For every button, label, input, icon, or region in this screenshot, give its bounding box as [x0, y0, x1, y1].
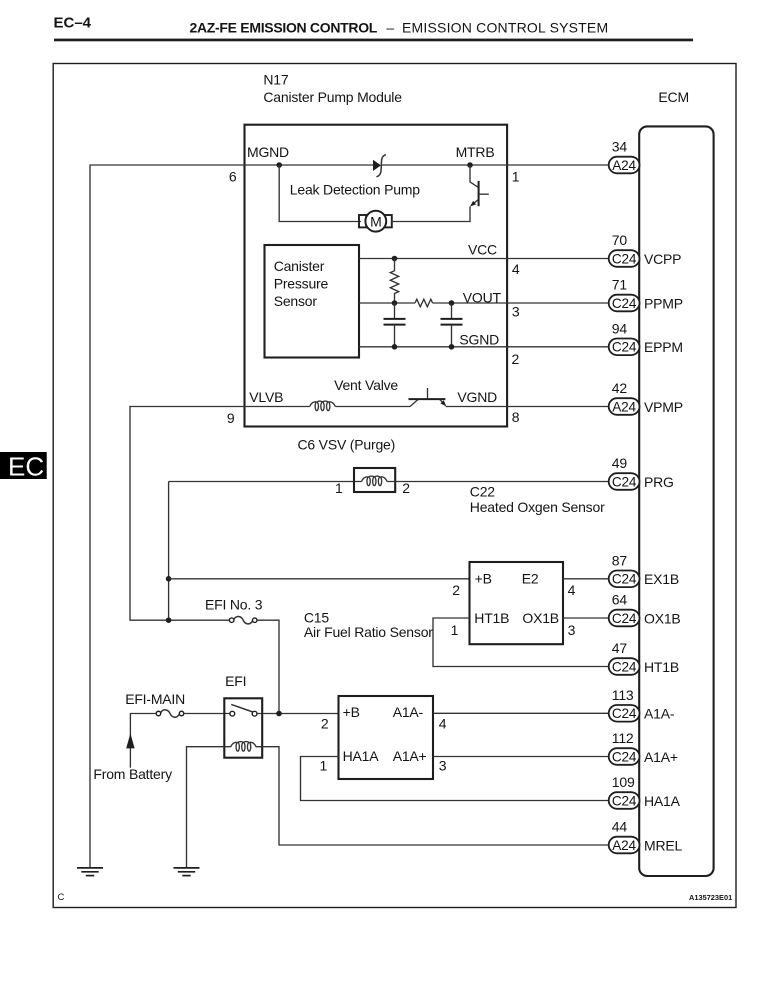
wire EFI-MAIN fuse to relay — [184, 713, 230, 715]
node MGND junction — [276, 162, 282, 168]
svg-text:OX1B: OX1B — [644, 610, 681, 626]
svg-text:A1A-: A1A- — [393, 704, 424, 720]
svg-text:Sensor: Sensor — [274, 293, 318, 309]
svg-text:EFI No. 3: EFI No. 3 — [205, 597, 263, 613]
connector A24 pin 34 — [609, 139, 640, 174]
svg-text:Pressure: Pressure — [274, 276, 329, 292]
svg-text:A24: A24 — [612, 838, 636, 853]
connector C24 pin 109 HA1A — [609, 774, 681, 809]
wire MGND pin 6 to ground — [90, 165, 245, 868]
wire check valve to MTRB pin 1 and connector A24 — [381, 164, 609, 166]
svg-text:PPMP: PPMP — [644, 295, 683, 311]
svg-text:3: 3 — [512, 304, 520, 320]
wire A1A+ to connector — [433, 756, 609, 758]
node VOUT junction right — [449, 300, 455, 306]
svg-text:EC–4: EC–4 — [54, 15, 92, 32]
svg-text:109: 109 — [612, 774, 635, 790]
wire relay coil to ground — [187, 747, 225, 868]
svg-text:3: 3 — [568, 622, 576, 638]
svg-text:A1A-: A1A- — [644, 706, 675, 722]
svg-text:8: 8 — [512, 409, 520, 425]
svg-text:1: 1 — [320, 758, 328, 774]
svg-text:C24: C24 — [612, 659, 637, 674]
svg-text:94: 94 — [612, 321, 628, 337]
svg-text:Air Fuel Ratio Sensor: Air Fuel Ratio Sensor — [304, 624, 433, 640]
svg-text:Leak Detection Pump: Leak Detection Pump — [290, 182, 420, 198]
node VOUT junction left — [392, 300, 398, 306]
wire relay coil to MREL connector — [262, 747, 609, 845]
svg-text:–: – — [386, 19, 394, 35]
svg-text:OX1B: OX1B — [522, 610, 559, 626]
wire relay switch output to A1A sensor — [257, 713, 339, 715]
wire MGND to check valve — [245, 164, 374, 166]
node SGND junction left — [392, 344, 398, 350]
resistor R2 series output — [415, 299, 433, 307]
connector C24 pin 49 PRG — [609, 455, 674, 490]
node MTRB junction — [467, 162, 473, 168]
svg-text:VCC: VCC — [468, 242, 497, 258]
svg-text:MTRB: MTRB — [456, 144, 495, 160]
svg-text:2: 2 — [402, 480, 410, 496]
connector C24 pin 71 PPMP — [609, 277, 683, 312]
svg-text:9: 9 — [227, 410, 235, 426]
svg-text:C15: C15 — [304, 609, 329, 625]
motor M leak detection pump — [359, 211, 392, 232]
wire A1A- to connector — [433, 712, 609, 714]
node SGND junction right — [449, 344, 455, 350]
wire battery to EFI-MAIN fuse — [130, 714, 156, 768]
connector C24 pin 94 EPPM — [609, 321, 683, 356]
label C15 Air Fuel Ratio Sensor — [304, 609, 433, 640]
wire HA1A to connector — [301, 757, 609, 801]
svg-text:Canister Pump Module: Canister Pump Module — [263, 89, 402, 105]
vent valve switch (driver) — [409, 388, 447, 407]
svg-text:EX1B: EX1B — [644, 571, 679, 587]
transistor Q1 leak detection pump driver — [470, 165, 489, 207]
svg-text:VLVB: VLVB — [249, 389, 283, 405]
svg-text:HA1A: HA1A — [644, 793, 681, 809]
wire E2 to connector EX1B — [563, 578, 609, 580]
vent valve coil — [245, 406, 310, 408]
svg-text:Heated Oxgen Sensor: Heated Oxgen Sensor — [470, 499, 605, 515]
svg-text:C24: C24 — [612, 793, 637, 808]
svg-text:N17: N17 — [263, 71, 288, 87]
svg-text:44: 44 — [612, 819, 628, 835]
svg-text:VGND: VGND — [457, 389, 497, 405]
connector C24 pin 70 VCPP — [609, 232, 682, 267]
capacitor C1 — [384, 303, 406, 347]
svg-text:MGND: MGND — [247, 144, 289, 160]
svg-text:HT1B: HT1B — [644, 659, 679, 675]
wire OX1B to connector — [563, 617, 609, 619]
wire HT1B to connector — [433, 618, 609, 667]
svg-text:C24: C24 — [612, 296, 637, 311]
svg-text:3: 3 — [439, 758, 447, 774]
relay EFI — [224, 673, 262, 758]
svg-text:2: 2 — [452, 582, 460, 598]
svg-text:C24: C24 — [612, 340, 637, 355]
svg-text:C6 VSV (Purge): C6 VSV (Purge) — [298, 436, 396, 452]
A1A heated oxygen sensor box — [339, 696, 434, 779]
wire PRG vertical to EFI No.3 line — [168, 482, 170, 621]
svg-text:C24: C24 — [612, 749, 637, 764]
wire motor to transistor emitter — [391, 206, 470, 221]
svg-text:2AZ-FE EMISSION CONTROL: 2AZ-FE EMISSION CONTROL — [190, 19, 378, 35]
connector C24 pin 64 OX1B — [609, 592, 681, 627]
svg-text:Canister: Canister — [274, 258, 325, 274]
svg-text:1: 1 — [451, 622, 459, 638]
svg-text:A24: A24 — [612, 158, 636, 173]
wire coil to vent valve switch — [335, 406, 410, 408]
fuse EFI-MAIN — [125, 691, 185, 717]
node EFI No.3 junction — [166, 617, 172, 623]
svg-text:C24: C24 — [612, 474, 637, 489]
capacitor C2 — [441, 303, 463, 347]
svg-text:C22: C22 — [470, 484, 495, 500]
wire VLVB pin 9 to EFI No.3 line — [130, 407, 245, 621]
svg-text:64: 64 — [612, 592, 628, 608]
svg-text:E2: E2 — [522, 571, 539, 587]
svg-text:From Battery: From Battery — [93, 766, 172, 782]
svg-text:VOUT: VOUT — [463, 289, 502, 305]
svg-text:EC: EC — [8, 452, 44, 482]
svg-text:HA1A: HA1A — [343, 748, 380, 764]
svg-text:M: M — [370, 214, 381, 230]
wire VCC sensor to connector — [359, 258, 609, 260]
svg-text:+B: +B — [343, 704, 360, 720]
svg-text:VPMP: VPMP — [644, 399, 683, 415]
svg-text:1: 1 — [512, 168, 520, 184]
svg-text:34: 34 — [612, 139, 628, 155]
connector C24 pin 87 EX1B — [609, 553, 679, 588]
ground G1 — [77, 868, 103, 876]
svg-text:C24: C24 — [612, 572, 637, 587]
svg-text:71: 71 — [612, 277, 628, 293]
node VCC junction — [392, 256, 398, 262]
svg-text:70: 70 — [612, 232, 628, 248]
svg-text:112: 112 — [612, 730, 634, 746]
svg-text:ECM: ECM — [658, 89, 689, 105]
node +B tap junction — [166, 576, 172, 582]
ECM box — [639, 89, 713, 876]
wire SGND sensor to connector — [359, 346, 609, 348]
svg-text:2: 2 — [321, 716, 329, 732]
svg-text:VCPP: VCPP — [644, 251, 681, 267]
svg-text:4: 4 — [512, 261, 520, 277]
svg-text:EFI-MAIN: EFI-MAIN — [125, 691, 185, 707]
connector C24 pin 112 A1A+ — [609, 730, 678, 765]
svg-text:42: 42 — [612, 380, 628, 396]
svg-text:4: 4 — [439, 716, 447, 732]
svg-text:C24: C24 — [612, 706, 637, 721]
label C22 Heated Oxgen Sensor — [470, 484, 605, 515]
wire fuse to relay output node — [257, 620, 279, 713]
connector A24 pin 42 VPMP — [609, 380, 683, 415]
svg-text:6: 6 — [229, 169, 237, 185]
VSV C6 purge valve box — [354, 468, 395, 492]
fuse EFI No. 3 — [205, 597, 263, 624]
wire PRG left segment — [169, 481, 362, 483]
node relay output junction — [276, 711, 282, 717]
svg-text:EPPM: EPPM — [644, 339, 683, 355]
svg-text:C24: C24 — [612, 251, 637, 266]
svg-text:C: C — [58, 892, 65, 903]
wire VGND to connector A24 — [446, 406, 609, 408]
svg-text:2: 2 — [512, 351, 520, 367]
svg-text:A1A+: A1A+ — [393, 748, 427, 764]
svg-text:A24: A24 — [612, 399, 636, 414]
svg-text:EMISSION CONTROL SYSTEM: EMISSION CONTROL SYSTEM — [402, 19, 608, 35]
svg-text:EFI: EFI — [225, 673, 246, 689]
svg-text:A135723E01: A135723E01 — [689, 893, 732, 902]
svg-text:MREL: MREL — [644, 837, 683, 853]
connector C24 pin 113 A1A- — [609, 687, 675, 722]
svg-text:4: 4 — [568, 582, 576, 598]
svg-text:87: 87 — [612, 553, 628, 569]
svg-text:A1A+: A1A+ — [644, 749, 678, 765]
VSV coil — [361, 476, 387, 486]
svg-text:PRG: PRG — [644, 474, 674, 490]
resistor R1 pull-up — [390, 259, 398, 304]
connector A24 pin 44 MREL — [609, 819, 683, 854]
battery feed arrow — [126, 733, 134, 748]
svg-text:Vent Valve: Vent Valve — [334, 377, 398, 393]
wire VOUT sensor to resistor R2 — [359, 302, 415, 304]
module N17 Canister Pump Module box — [245, 71, 508, 426]
svg-text:47: 47 — [612, 640, 628, 656]
svg-text:1: 1 — [335, 480, 343, 496]
svg-text:49: 49 — [612, 455, 628, 471]
wire +B supply to C15 sensor — [169, 578, 470, 580]
C15 air fuel ratio sensor box — [470, 562, 564, 644]
svg-text:SGND: SGND — [459, 331, 499, 347]
wire VOUT to connector — [433, 302, 609, 304]
connector C24 pin 47 HT1B — [609, 640, 679, 675]
svg-text:+B: +B — [475, 571, 492, 587]
wire MGND junction down to motor — [279, 165, 361, 222]
canister pressure sensor box — [265, 245, 360, 358]
ground G2 — [174, 868, 200, 876]
svg-text:113: 113 — [612, 687, 634, 703]
check valve on pump line — [373, 155, 386, 177]
svg-text:HT1B: HT1B — [474, 610, 509, 626]
svg-text:C24: C24 — [612, 611, 637, 626]
wire PRG to connector — [387, 481, 609, 483]
